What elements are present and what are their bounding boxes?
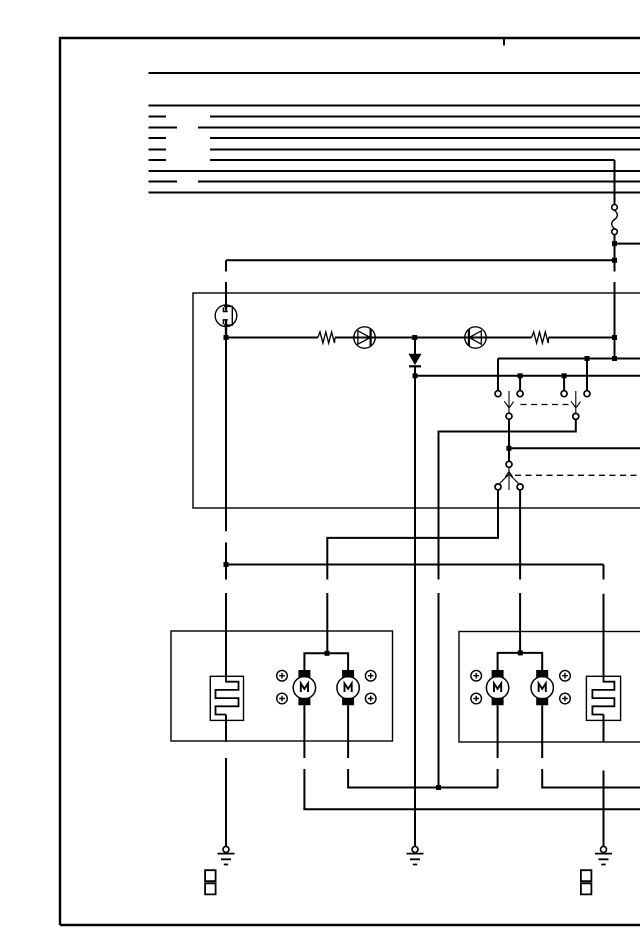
wire breaker feed upper: [225, 260, 227, 305]
polarity mark 3: [365, 670, 376, 681]
wire contact 3 feed: [563, 376, 565, 391]
connector squiggle: [612, 210, 618, 228]
wire bus L0: [149, 72, 640, 74]
sensor RS2 lead out: [603, 715, 605, 848]
polarity mark 4: [365, 693, 376, 704]
ground G2: [407, 846, 424, 864]
motor M4 terminals: [536, 670, 548, 705]
wire bus L7: [149, 170, 640, 172]
motor M3: [486, 677, 508, 699]
ground G1: [218, 846, 235, 864]
wire SW2 output: [439, 419, 576, 787]
diode D1 bar: [370, 329, 372, 345]
contact 5: [495, 484, 501, 490]
connector lower terminal: [612, 229, 618, 235]
wire bus L4: [149, 137, 640, 139]
linkage dash lower: [515, 474, 640, 476]
motor M3 label: [494, 683, 501, 692]
wire row A: [498, 358, 640, 360]
junction row A col4: [585, 356, 590, 361]
wire contact6 to right motor feed: [519, 490, 521, 653]
wire contact 2 feed: [519, 376, 521, 391]
wire bus L3: [149, 127, 640, 129]
switch SW3 movable contact: [506, 461, 512, 467]
wire motor M3 out: [497, 705, 499, 787]
ground G3 label glyph boxes: [581, 870, 592, 894]
switch SW1 movable contact: [506, 413, 512, 419]
contact 2: [517, 391, 523, 397]
sensor RS1 body: [210, 676, 243, 720]
motor M4: [531, 677, 553, 699]
wire bus L6: [149, 159, 615, 161]
junction diode lower node: [413, 373, 418, 378]
motor M2 terminals: [342, 670, 354, 705]
wire motor M4 out: [542, 705, 640, 787]
switch SW2 movable contact: [573, 413, 579, 419]
junction left motors node: [325, 651, 330, 656]
diode D2 bar: [468, 329, 470, 345]
junction right branch: [612, 241, 617, 246]
junction SW1 node: [506, 446, 511, 451]
connector upper terminal: [612, 205, 618, 211]
sensor RS2 element: [592, 676, 614, 714]
sensor RS2 body: [586, 676, 620, 720]
ground G3: [595, 846, 612, 864]
contact 6: [517, 484, 523, 490]
polarity mark 2: [277, 693, 288, 704]
wire bus L8: [149, 181, 640, 183]
wire row B: [415, 375, 640, 377]
left door box: [171, 631, 393, 741]
switch SW3 arm: [500, 467, 519, 490]
linkage dash upper: [521, 404, 570, 406]
junction row A col drop: [612, 356, 617, 361]
sensor RS1 lead out: [225, 715, 227, 848]
polarity mark 5: [471, 670, 482, 681]
junction row B col2: [518, 373, 523, 378]
switch SW1 arm: [504, 391, 513, 413]
wire drop from bus L6: [614, 160, 616, 204]
right door box: [459, 632, 640, 743]
polarity mark 8: [560, 693, 571, 704]
wire main row: [226, 337, 615, 339]
contact 4: [584, 391, 590, 397]
wire bus L5: [149, 149, 640, 151]
junction main row right node: [612, 335, 617, 340]
wire branch to breaker column: [226, 259, 615, 261]
wire ground branch row: [226, 564, 604, 566]
diode D3 bar: [409, 365, 421, 367]
wire SW1 output: [508, 419, 510, 461]
control unit box: [193, 293, 640, 508]
polarity mark 6: [471, 693, 482, 704]
junction diode node: [412, 335, 417, 340]
circuit breaker lead in: [225, 305, 227, 311]
diode D3 lead: [414, 338, 416, 355]
motor M1 label: [301, 683, 308, 692]
motor M1: [293, 677, 315, 699]
motor M1 terminals: [298, 670, 310, 705]
wire contact 4 feed: [586, 359, 588, 391]
contact 1: [495, 391, 501, 397]
page tick mark: [503, 38, 505, 46]
circuit breaker lead out: [225, 321, 227, 338]
wire motor M2 out: [348, 705, 498, 787]
wire contact 1 feed: [497, 359, 499, 391]
wire right sensor feed: [603, 565, 605, 677]
wire diode to ground column: [414, 366, 416, 847]
wire bus L1: [149, 105, 640, 107]
wire bus L2: [149, 116, 640, 118]
wire breaker column lower: [225, 338, 227, 677]
circuit breaker circle: [215, 305, 237, 327]
junction row B col3: [562, 373, 567, 378]
switch SW2 arm: [571, 391, 580, 413]
polarity mark 1: [277, 670, 288, 681]
sensor RS1 element: [216, 676, 239, 714]
wire branch right to edge: [615, 243, 640, 245]
diode D1 triangle: [358, 331, 370, 344]
junction right motors node: [518, 650, 523, 655]
junction breaker ground node: [224, 562, 229, 567]
circuit breaker element: [223, 306, 232, 325]
resistor R2: [532, 332, 549, 343]
motor M2: [337, 677, 359, 699]
wire bus L9: [149, 192, 640, 194]
wire contact5 to left motor feed: [327, 490, 498, 653]
wire row C to edge: [509, 447, 640, 449]
junction breaker node: [224, 335, 229, 340]
diode circle D2: [465, 327, 486, 348]
junction SW2 output node: [436, 785, 441, 790]
polarity mark 7: [560, 670, 571, 681]
ground G1 label glyph boxes: [205, 870, 216, 894]
resistor R1: [318, 332, 335, 343]
diode D3 triangle: [409, 354, 420, 364]
wire left motors branch: [304, 653, 348, 670]
junction left branch: [612, 258, 617, 263]
motor M2 label: [345, 683, 352, 692]
diode circle D1: [354, 327, 375, 348]
motor M4 label: [539, 683, 546, 692]
wire right motors branch: [498, 653, 543, 670]
motor M3 terminals: [492, 670, 504, 705]
contact 3: [561, 391, 567, 397]
wire motor M1 out: [304, 705, 640, 809]
diode D2 triangle: [469, 331, 481, 344]
wire below connector: [614, 235, 616, 359]
